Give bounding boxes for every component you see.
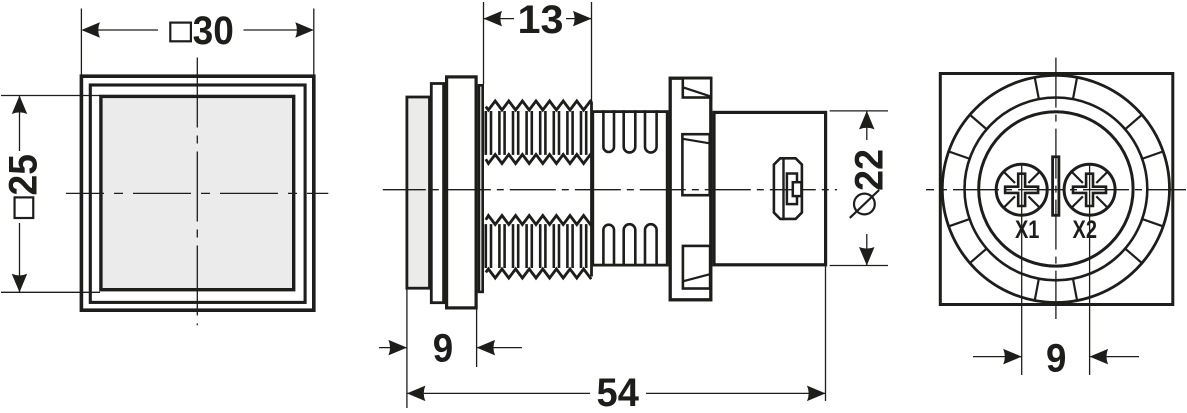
- svg-text:13: 13: [518, 0, 564, 42]
- svg-text:9: 9: [1046, 336, 1066, 380]
- svg-text:22: 22: [847, 149, 891, 191]
- svg-text:54: 54: [597, 371, 640, 413]
- svg-text:25: 25: [1, 154, 45, 195]
- svg-text:X1: X1: [1015, 216, 1040, 244]
- svg-text:30: 30: [193, 9, 234, 53]
- svg-text:X2: X2: [1073, 216, 1098, 244]
- svg-text:9: 9: [433, 326, 453, 370]
